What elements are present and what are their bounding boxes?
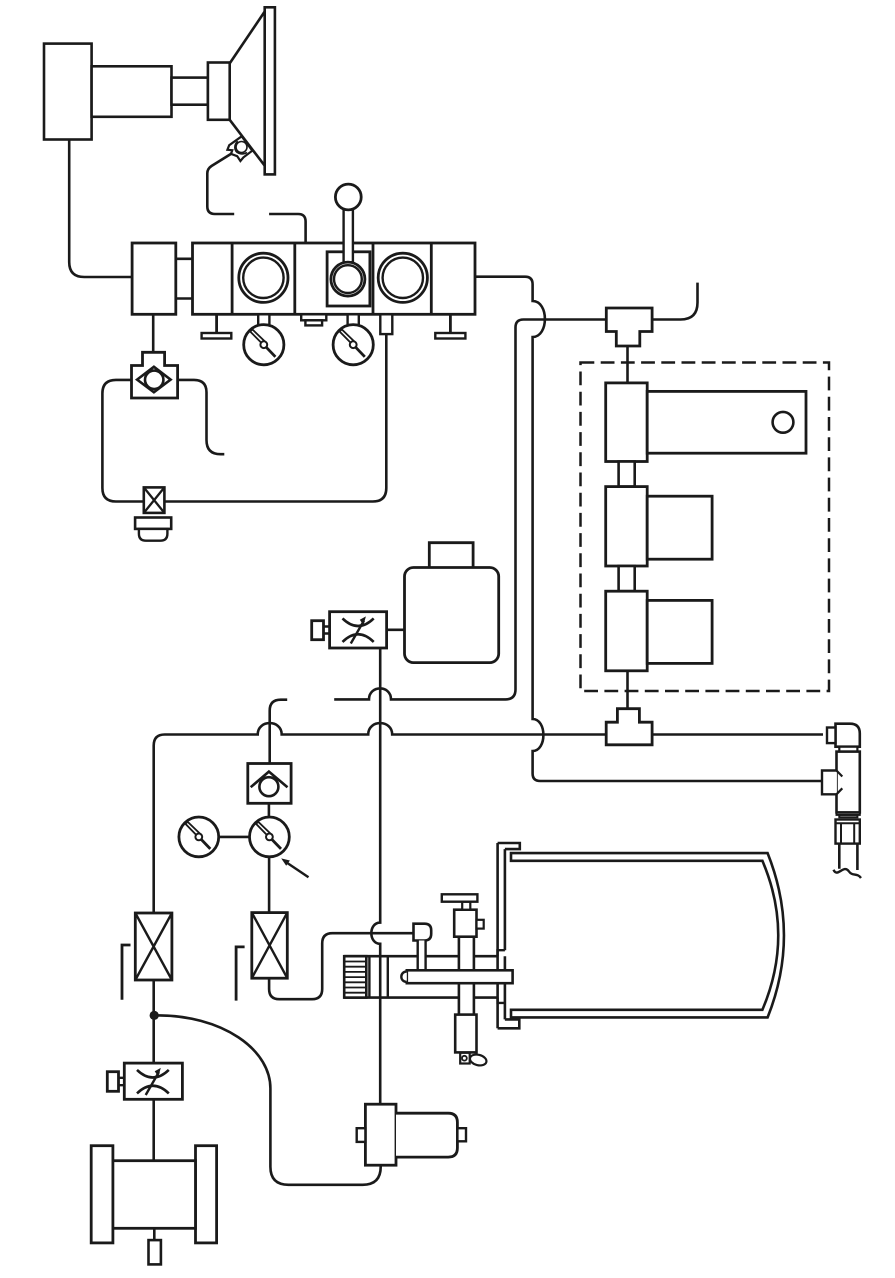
tank shell	[511, 853, 784, 1017]
solenoid valve 2 coil	[647, 496, 712, 559]
solenoid valve 1 body	[606, 383, 648, 462]
wire loop from manifold stub around to filter unit	[102, 334, 386, 501]
flow control valve B symbol	[137, 1068, 169, 1095]
manifold foot right	[435, 314, 465, 338]
mount tick right valve	[236, 947, 245, 1001]
drain valve collar	[135, 518, 171, 529]
manifold foot left	[202, 314, 232, 338]
gauge G2	[333, 325, 373, 365]
manifold divider 1	[231, 243, 234, 314]
manifold port ring left	[239, 253, 288, 302]
flow control valve A body	[330, 612, 387, 648]
wire from T1 left down to open end	[334, 320, 606, 700]
connector valve2-valve3	[619, 566, 635, 591]
regulator gauge G4	[250, 817, 290, 857]
strainer cap fitting	[414, 924, 432, 971]
junction node	[150, 1011, 159, 1020]
shutoff valve left	[135, 913, 172, 980]
solenoid valve 3 body	[606, 591, 648, 671]
wire bypass big curve junction to pump	[154, 1015, 381, 1184]
wire check valve to regulator gauge	[268, 803, 271, 817]
wire from T1 right to open hook	[652, 283, 697, 320]
tank bracket	[498, 843, 520, 1028]
filter unit diamond	[137, 367, 171, 393]
solenoid valve 1 arm hole	[773, 412, 794, 433]
tee fitting T1	[606, 308, 652, 346]
sensor on horn slope	[227, 136, 252, 161]
flow control valve A symbol	[343, 616, 374, 643]
motor M2 bottom plug	[149, 1240, 161, 1264]
manifold divider 3	[372, 243, 375, 314]
flow control valve B knob	[107, 1072, 124, 1092]
tank valve side tab	[477, 920, 484, 929]
horn flange	[208, 63, 230, 120]
rod	[172, 78, 208, 105]
wire from manifold right, hop, down to hose tab	[475, 277, 823, 781]
cross lower pipe	[455, 1015, 476, 1053]
gauge G3	[179, 817, 219, 857]
manifold connector neck	[176, 259, 193, 299]
manifold body	[193, 243, 476, 314]
horn upper slope	[230, 11, 266, 64]
gauge G2 stem	[348, 314, 359, 325]
wire flow valve A to motor box	[387, 628, 405, 631]
manifold outlet stub	[380, 314, 392, 334]
dashed enclosure	[581, 363, 830, 692]
horn lower slope	[230, 120, 265, 166]
hose tube	[839, 844, 857, 870]
adjustment arrow at G4	[281, 858, 308, 877]
wire main lower bus with two hops	[154, 723, 823, 913]
manifold mid bracket	[301, 314, 326, 325]
wire solenoid valve 3 to T2	[626, 671, 629, 709]
hose elbow fitting	[827, 724, 860, 752]
wire G3 to G4	[219, 836, 250, 839]
pump unit body	[365, 1104, 396, 1165]
filter unit body	[132, 352, 178, 398]
wire from sensor down to gap	[207, 154, 234, 215]
wire from gap into manifold top	[269, 214, 306, 243]
cylinder body	[44, 44, 92, 140]
wire from cylinder to manifold left block	[69, 140, 132, 278]
lever shaft	[344, 197, 353, 262]
wire T1 to solenoid valve 1	[626, 346, 629, 383]
strainer block hatched	[344, 956, 366, 997]
check valve square	[248, 764, 291, 804]
cross fitting horizontal bar	[401, 970, 512, 983]
tank valve handle	[442, 894, 478, 901]
wire right valve S-bend to strainer cap	[269, 933, 413, 999]
strainer flange lines	[369, 956, 387, 997]
lever ball	[335, 184, 361, 210]
manifold divider 2	[293, 243, 296, 314]
pump unit motor	[396, 1113, 457, 1157]
hose fitting nut	[836, 820, 860, 844]
tee fitting T2	[606, 709, 652, 745]
pump housing top line	[344, 955, 497, 958]
manifold left block	[132, 243, 176, 314]
lever housing square	[327, 252, 370, 306]
motor M2 right flange	[196, 1146, 217, 1243]
gauge G1 stem	[258, 314, 269, 325]
motor M2 left flange	[91, 1146, 113, 1243]
horn mouth	[265, 7, 275, 174]
manifold port ring right	[378, 253, 427, 302]
filter unit circle	[145, 371, 163, 389]
cross drain plug	[460, 1053, 487, 1067]
wire flow valve B to motor M2	[152, 1099, 155, 1160]
wire open hook above check valve	[270, 700, 288, 764]
drain valve on loop	[144, 487, 165, 513]
flow control valve B body	[124, 1063, 182, 1099]
tank valve stem	[462, 902, 470, 910]
hose fitting side tab	[822, 771, 842, 795]
connector valve1-valve2	[619, 462, 635, 487]
lever pivot rings	[331, 262, 365, 296]
mount tick left valve	[122, 945, 131, 1000]
tank valve body	[454, 910, 476, 937]
wire from filter unit right with open hook	[178, 380, 225, 454]
wire stem from left block to filter unit	[152, 314, 155, 352]
pump unit right tab	[457, 1128, 466, 1141]
motor M2 body	[113, 1161, 196, 1229]
wire G4 to shutoff valve right	[268, 857, 271, 913]
long vertical wire from flow valve to pump	[371, 648, 380, 1104]
drain valve cup	[139, 529, 168, 541]
pump housing bottom line	[344, 996, 497, 999]
manifold divider 4	[430, 243, 433, 314]
hose break squiggle	[834, 869, 862, 878]
solenoid valve 1 arm	[647, 391, 806, 453]
motor M2 stem	[153, 1228, 156, 1240]
hose fitting bands	[837, 812, 860, 817]
pump unit left tab	[357, 1128, 366, 1142]
cylinder head	[92, 66, 172, 117]
wire left valve to junction and flow valve B	[152, 980, 155, 1063]
hose fitting body	[837, 752, 860, 813]
shutoff valve right	[252, 913, 287, 979]
solenoid valve 2 body	[606, 487, 648, 566]
motor box cap	[429, 543, 473, 568]
motor box	[405, 568, 499, 663]
gauge G1	[244, 325, 284, 365]
flow control valve A knob	[312, 621, 330, 640]
solenoid valve 3 coil	[647, 600, 712, 663]
cross fitting vertical bar	[459, 937, 474, 1017]
